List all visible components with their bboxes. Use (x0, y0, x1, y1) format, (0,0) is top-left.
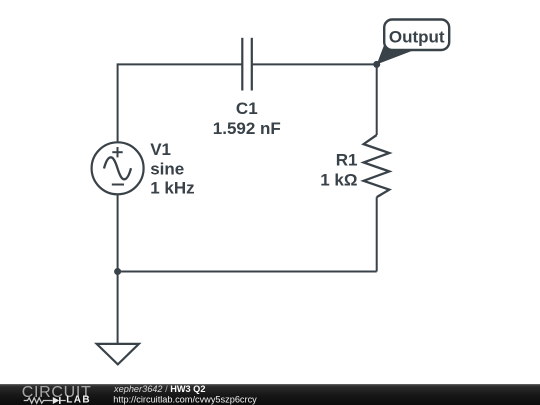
svg-text:R1: R1 (336, 151, 358, 170)
output flag box (384, 20, 449, 51)
svg-text:V1: V1 (150, 140, 171, 159)
wire left net (source bottom to bottom rail) (117, 194, 119, 271)
wire ground stub (117, 272, 119, 344)
svg-text:http://circuitlab.com/cvwy5szp: http://circuitlab.com/cvwy5szp6crcy (113, 395, 257, 405)
output flag tail (377, 44, 415, 64)
svg-text:1 kΩ: 1 kΩ (320, 170, 357, 189)
svg-text:1.592 nF: 1.592 nF (213, 119, 281, 138)
junction node at output (top right) (373, 61, 380, 68)
svg-text:xepher3642 / HW3 Q2: xepher3642 / HW3 Q2 (113, 384, 205, 394)
voltage source V1 (92, 142, 144, 194)
wire bottom rail (118, 271, 377, 273)
CircuitLab logo (22, 384, 92, 405)
wire right net lower (R1 bottom to bottom rail) (376, 197, 378, 271)
svg-text:LAB: LAB (66, 394, 91, 405)
wire right net upper (output node to R1 top) (376, 64, 378, 135)
svg-text:C1: C1 (236, 99, 258, 118)
wire top net right segment (C1 right plate to output node) (252, 63, 377, 65)
resistor R1 (364, 135, 390, 197)
footer bar (0, 384, 540, 405)
svg-text:sine: sine (150, 159, 184, 178)
svg-text:Output: Output (389, 28, 445, 47)
svg-text:1 kHz: 1 kHz (150, 179, 194, 198)
capacitor C1 (242, 38, 252, 91)
ground (97, 344, 139, 365)
wire top net left segment (source top to C1 left plate) (118, 64, 243, 142)
label V1 sine 1 kHz (150, 140, 194, 198)
junction node bottom left (114, 268, 121, 275)
